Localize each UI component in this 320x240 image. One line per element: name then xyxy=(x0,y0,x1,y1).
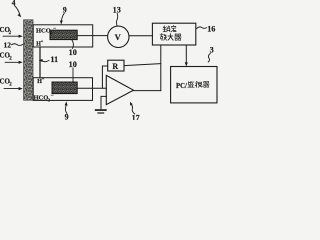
label 11 + arrow xyxy=(39,55,59,64)
non-inverting input wire xyxy=(101,96,106,108)
PC / monitor box xyxy=(171,67,217,103)
label H+ (bottom chamber) xyxy=(37,76,45,85)
arrow CO2-2 xyxy=(5,61,23,64)
svg-text:R: R xyxy=(112,62,118,71)
resistor R xyxy=(108,60,124,71)
text "qi" (device) xyxy=(175,34,182,40)
label 4 xyxy=(12,0,21,17)
svg-text:PC/: PC/ xyxy=(176,83,187,90)
membrane bar 4/12 xyxy=(24,20,33,100)
bottom chamber box xyxy=(33,78,92,101)
text "suo" (lock) xyxy=(163,26,170,32)
label 12 xyxy=(4,41,24,50)
text "ding" xyxy=(171,25,176,31)
label 17 xyxy=(130,102,140,123)
svg-text:10: 10 xyxy=(69,48,77,57)
text "qi2" (device) xyxy=(203,81,209,87)
label H+ (top chamber) xyxy=(36,39,44,48)
svg-text:−: − xyxy=(53,26,56,32)
channel wire between chambers xyxy=(39,47,41,78)
ground xyxy=(95,109,107,113)
label 16 xyxy=(197,24,216,33)
label HCO3- (bottom chamber) xyxy=(34,93,54,102)
label 10 (bottom electrode) xyxy=(69,60,77,82)
svg-text:9: 9 xyxy=(63,6,67,15)
svg-text:HCO: HCO xyxy=(34,95,49,102)
svg-text:12: 12 xyxy=(4,41,12,50)
svg-text:16: 16 xyxy=(207,24,215,33)
svg-text:11: 11 xyxy=(50,55,58,64)
text "shi" (view) xyxy=(195,81,202,87)
label 9 (bottom) xyxy=(65,101,69,121)
arrow CO2-3 xyxy=(4,87,23,90)
label HCO3- (top chamber) xyxy=(36,26,56,35)
wire lock-in to output node xyxy=(160,45,162,91)
label 9 (top) xyxy=(60,6,67,25)
label 3 xyxy=(208,45,213,62)
arrow CO2-1 xyxy=(3,35,23,38)
electrode 10 (top) xyxy=(50,30,77,39)
feedback wire right of R xyxy=(124,64,161,66)
svg-text:V: V xyxy=(115,32,122,42)
op-amp 17 xyxy=(106,75,133,104)
label 13 xyxy=(113,5,121,25)
svg-text:−: − xyxy=(51,93,54,99)
CO2 label 1 xyxy=(0,26,12,36)
lock-in amplifier box 16 xyxy=(152,23,195,45)
arrow lock-in to PC xyxy=(185,45,188,66)
svg-text:HCO: HCO xyxy=(36,28,51,35)
top chamber box xyxy=(33,25,92,47)
wire top electrode to voltmeter xyxy=(77,35,107,37)
electrode 10 (bottom) xyxy=(52,82,77,94)
CO2 label 3 xyxy=(0,77,12,87)
wire voltmeter to lock-in amp xyxy=(129,35,152,37)
label 10 (top electrode) xyxy=(69,40,77,57)
voltmeter V xyxy=(108,26,129,47)
text "jian" (monitor) xyxy=(188,81,194,87)
wire bottom electrode to op-amp inverting input xyxy=(77,87,106,89)
op-amp output wire xyxy=(134,90,161,92)
svg-text:17: 17 xyxy=(132,113,140,120)
text "fang" xyxy=(160,33,167,40)
svg-text:13: 13 xyxy=(113,5,121,14)
CO2 label 2 xyxy=(0,51,12,61)
feedback wire left of R xyxy=(102,66,107,88)
text "da" (big) xyxy=(168,34,173,41)
